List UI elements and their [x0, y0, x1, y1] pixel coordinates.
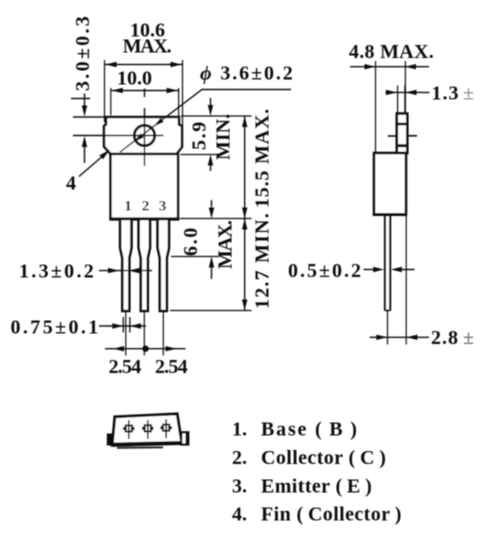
svg-text:15.5 MAX.: 15.5 MAX.: [252, 108, 274, 208]
svg-text:2.54: 2.54: [109, 356, 142, 378]
svg-text:6.0: 6.0: [180, 226, 202, 256]
svg-text:1.3±0.2: 1.3±0.2: [19, 261, 96, 283]
svg-text:1: 1: [124, 199, 132, 215]
svg-text:Emitter ( E ): Emitter ( E ): [261, 475, 372, 497]
svg-text:±: ±: [463, 83, 474, 105]
svg-text:Fin ( Collector ): Fin ( Collector ): [261, 504, 402, 526]
svg-text:1.3: 1.3: [432, 83, 460, 105]
svg-text:0.5±0.2: 0.5±0.2: [288, 260, 363, 282]
svg-text:0.75±0.1: 0.75±0.1: [11, 317, 101, 339]
svg-text:4: 4: [66, 173, 76, 195]
svg-text:3.0±0.3: 3.0±0.3: [72, 14, 94, 91]
svg-text:2: 2: [142, 199, 150, 215]
svg-text:MAX.: MAX.: [215, 220, 237, 269]
svg-text:1.: 1.: [232, 419, 247, 441]
svg-text:2.8: 2.8: [431, 327, 459, 349]
svg-text:Base ( B ): Base ( B ): [261, 419, 359, 441]
svg-text:5.9: 5.9: [189, 120, 211, 150]
svg-text:12.7 MIN.: 12.7 MIN.: [252, 212, 274, 309]
svg-text:±: ±: [463, 327, 474, 349]
svg-text:MAX.: MAX.: [123, 36, 172, 58]
svg-text:3.: 3.: [232, 475, 247, 497]
svg-text:2.54: 2.54: [155, 356, 188, 378]
svg-text:3: 3: [159, 199, 167, 215]
svg-text:4.: 4.: [232, 504, 247, 526]
svg-text:4.8 MAX.: 4.8 MAX.: [349, 41, 434, 63]
svg-text:ϕ 3.6±0.2: ϕ 3.6±0.2: [200, 63, 295, 85]
svg-text:2.: 2.: [232, 447, 247, 469]
svg-text:10.0: 10.0: [117, 68, 152, 90]
svg-text:MIN.: MIN.: [213, 114, 235, 160]
svg-text:Collector ( C ): Collector ( C ): [261, 447, 386, 469]
